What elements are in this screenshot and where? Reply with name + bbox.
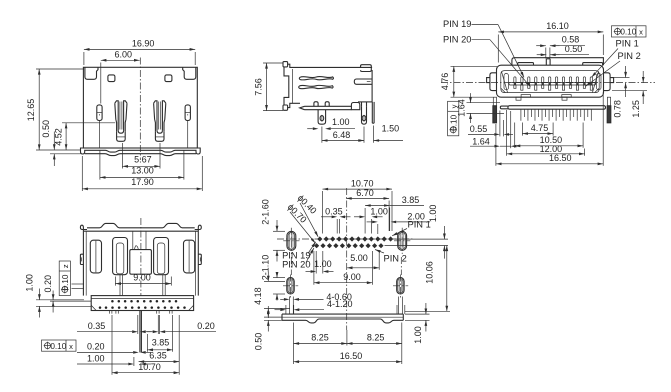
view4 top flange wavy strip [80,225,87,231]
svg-text:10.06: 10.06 [425,261,435,284]
svg-text:16.90: 16.90 [132,39,155,49]
view1 body shell outline [83,67,197,148]
view3 tongue bar [509,82,596,85]
view2 front leg oval hole [320,116,324,121]
svg-text:0.10: 0.10 [620,28,636,37]
view1 bottom flange wavy strip [83,147,197,149]
svg-text:z: z [61,264,70,268]
view4 terminal dots row1 [111,300,114,303]
view2 right edge [371,70,373,102]
view3 ear pin left [487,78,490,83]
svg-text:8.25: 8.25 [311,333,329,343]
view4 center leg thick [139,311,141,353]
svg-text:4-1.20: 4-1.20 [327,299,353,309]
svg-text:0.35: 0.35 [325,206,343,216]
svg-text:0.20: 0.20 [87,342,105,352]
view3 shell leg right [607,97,610,106]
tolerance box z [59,261,70,296]
view2 rear leg oval hole [362,116,366,121]
view2 rear leg [362,106,367,124]
svg-text:10.70: 10.70 [351,178,374,188]
view3 shell outline [497,65,604,97]
svg-text:1.50: 1.50 [382,124,400,134]
view2 rear top tab [361,65,372,72]
svg-text:0.35: 0.35 [88,321,106,331]
svg-text:1.64: 1.64 [457,99,467,117]
view5 leg left [289,297,291,315]
view3 ear pin right [610,78,614,83]
view3 inner chamfer left [502,72,508,93]
view3 inner opening [501,71,599,93]
view2 rear rounded tab [351,103,359,110]
svg-text:0.10: 0.10 [50,342,66,351]
svg-text:1.00: 1.00 [25,274,35,292]
svg-text:6.70: 6.70 [356,188,374,198]
svg-text:9.00: 9.00 [133,272,151,282]
view4 contact post left [113,238,128,275]
svg-text:1.00: 1.00 [370,206,388,216]
view5 slot right centerlines [401,228,403,254]
view5 leg right [398,297,400,315]
svg-text:4.75: 4.75 [531,123,549,133]
view5 vertical centerline [346,188,348,330]
view1 small square hole left [108,75,115,82]
svg-text:13.00: 13.00 [131,166,154,176]
svg-text:3.85: 3.85 [152,338,170,348]
view3 shell leg left [493,97,496,106]
view3 solder leg comb [520,109,522,121]
view4 outer wall post right [184,240,195,273]
view3 corner chamfer right [595,88,599,92]
view1 top-right corner notch tab [183,68,196,80]
svg-text:6.35: 6.35 [149,351,167,361]
svg-text:8.25: 8.25 [367,333,385,343]
view3 corner chamfer left [501,88,505,92]
svg-text:PIN 19: PIN 19 [443,19,471,29]
svg-text:10.70: 10.70 [138,362,161,372]
svg-text:6.00: 6.00 [115,50,133,60]
view2 rear middle tab [354,79,372,84]
svg-text:4.52: 4.52 [53,128,63,146]
view3 mounting ear left [490,73,497,91]
svg-text:0.58: 0.58 [562,34,580,44]
view2 standoff bar [300,106,352,109]
view5 leg left centerline [290,257,292,275]
svg-text:5.00: 5.00 [350,253,368,263]
view4 side bump left [80,254,83,264]
tolerance box y [448,101,459,136]
view3 top plate strips [518,63,534,66]
view2 front shield wall [283,62,288,67]
view5 slot left centerlines [290,228,292,254]
view3 inner chamfer right [593,72,599,93]
svg-text:0.50: 0.50 [41,120,51,138]
view4 center support [132,231,134,249]
svg-text:PIN 2: PIN 2 [618,51,641,61]
tolerance box x view4 [42,340,77,351]
view4 solder legs below strip [110,311,112,314]
view3 side slot left [504,74,509,90]
svg-text:0.78: 0.78 [613,100,623,118]
svg-text:16.10: 16.10 [546,21,569,31]
view1 spring contact prong [154,101,157,131]
tolerance box x [612,26,647,37]
svg-text:1.00: 1.00 [332,117,350,127]
svg-text:17.90: 17.90 [131,177,154,187]
svg-text:7.56: 7.56 [254,78,264,96]
view5 mounting slot left 1.60 [287,231,296,250]
view1 spring contact prong [115,101,118,131]
svg-text:x: x [69,342,73,351]
view4 center line [140,218,142,296]
view3 side slot right [597,74,602,90]
view5 lock slot left 1.10 [287,278,294,294]
view3 pin comb upper row [514,77,516,83]
view5 pad row2 [314,243,319,248]
svg-text:0.20: 0.20 [197,321,215,331]
view3 shell bottom tabs [516,97,521,100]
view3 lower insulator bar [508,106,606,110]
view3 top spring plate [512,58,604,65]
view5 mounting slot right 1.60 [398,231,407,250]
view2 stamped slot upper [299,76,333,79]
view4 contact post right [154,238,169,275]
svg-text:16.50: 16.50 [340,351,363,361]
view2 front through leg [318,110,326,125]
svg-text:0.50: 0.50 [254,333,264,351]
view3 mounting ear right [604,73,611,91]
svg-text:x: x [639,28,643,37]
view4 post tails [119,275,121,296]
svg-text:0.50: 0.50 [565,44,583,54]
view5 lock slot right 1.10 [397,278,404,294]
svg-text:1.00: 1.00 [87,353,105,363]
view5 base plate [282,313,403,315]
view1 left side latch tab [97,105,102,121]
svg-text:1.00: 1.00 [413,326,423,344]
svg-text:5.67: 5.67 [134,154,152,164]
view3 pin marks in bar [514,83,516,85]
view1 small square hole right [165,75,172,82]
svg-text:9.00: 9.00 [343,272,361,282]
view1 center line [139,58,141,161]
view4 center block [130,250,152,275]
svg-text:12.65: 12.65 [26,99,36,122]
view5 horizontal centerline through pads [277,238,413,240]
view3 horizontal centerline [441,82,655,84]
svg-text:16.50: 16.50 [549,153,572,163]
view3 center tab 0.58 [545,59,547,65]
svg-text:6.48: 6.48 [333,130,351,140]
svg-text:2-1.60: 2-1.60 [260,199,270,225]
svg-text:1.25: 1.25 [631,100,641,118]
view3 pin comb lower stubs [514,85,516,88]
view5 leg right centerline [400,257,402,275]
svg-text:PIN 1: PIN 1 [616,39,639,49]
view2 body outline [287,64,372,67]
svg-text:4.18: 4.18 [253,287,263,305]
svg-text:1.00: 1.00 [428,205,438,223]
view1 top-left corner notch tab [85,68,98,80]
view5 lock slot left centerlines [290,275,292,298]
svg-text:4.76: 4.76 [440,73,450,91]
view2 front leg stubs [314,102,318,107]
view5 lock slot right centerlines [399,275,401,298]
svg-text:PIN 20: PIN 20 [443,34,471,44]
svg-text:0.55: 0.55 [470,124,488,134]
view2 stamped slot lower [299,85,333,88]
view4 terminal strip [91,296,193,311]
view4 terminal dots row2 [105,306,108,309]
view4 left margin leader lines [72,283,85,285]
svg-text:3.85: 3.85 [402,195,420,205]
view5 pad row1 [317,236,322,241]
view1 right side latch tab [185,105,190,121]
view4 outer wall post left [90,240,101,273]
svg-text:0.10: 0.10 [61,274,70,290]
view4 side bump right [198,254,201,264]
svg-text:PIN 20: PIN 20 [282,260,310,270]
svg-text:0.20: 0.20 [43,275,53,293]
svg-text:PIN 2: PIN 2 [384,254,407,264]
view4 body sides [82,231,84,295]
svg-text:1.64: 1.64 [472,136,490,146]
view3 bar left knob [500,106,508,109]
view2 board lock pin [371,102,373,123]
